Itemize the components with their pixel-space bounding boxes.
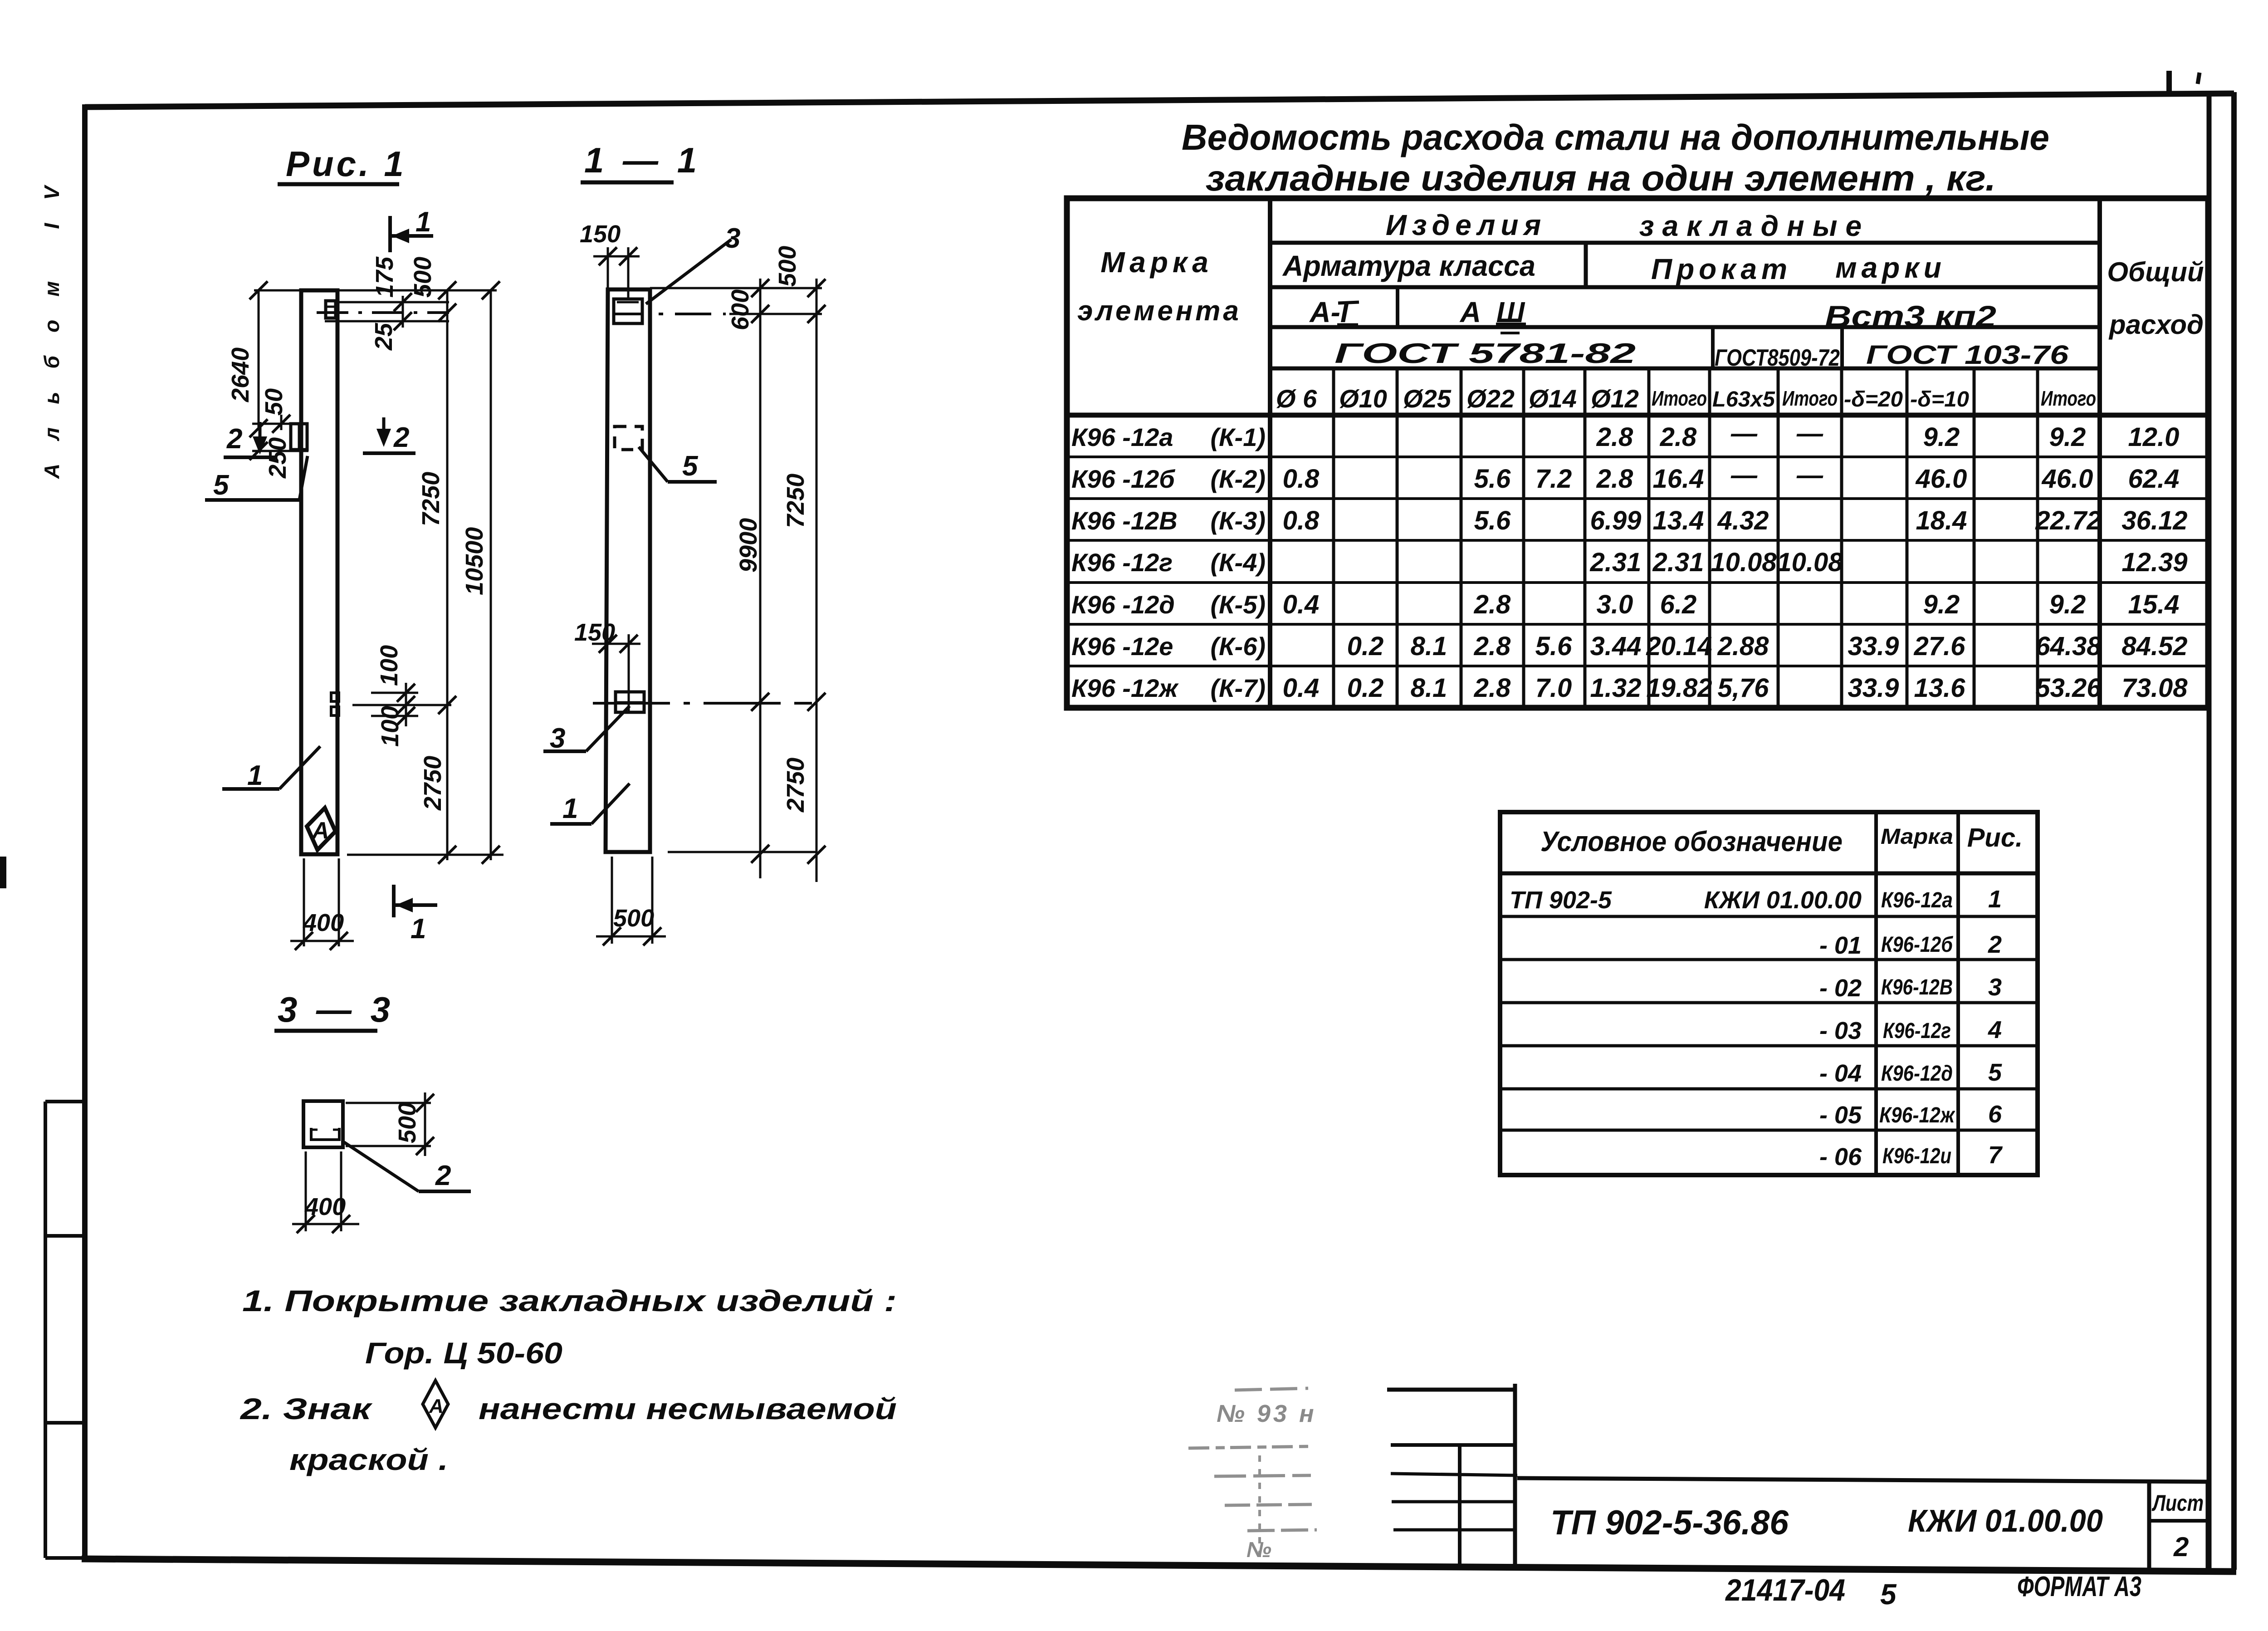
svg-text:Ø10: Ø10 <box>1339 384 1387 413</box>
svg-text:36.12: 36.12 <box>2121 506 2187 535</box>
svg-text:- 06: - 06 <box>1819 1143 1862 1171</box>
svg-text:К96 -12е: К96 -12е <box>1071 632 1173 661</box>
svg-text:ГОСТ 5781-82: ГОСТ 5781-82 <box>1334 338 1636 369</box>
svg-text:L63x5: L63x5 <box>1712 387 1775 411</box>
svg-text:—: — <box>1730 419 1758 448</box>
header: Общий расход <box>2107 257 2204 340</box>
svg-text:- 02: - 02 <box>1819 975 1862 1002</box>
svg-text:2750: 2750 <box>782 758 809 813</box>
svg-text:К96-12а: К96-12а <box>1881 888 1953 912</box>
svg-text:7.0: 7.0 <box>1535 673 1572 703</box>
1-1 column outline <box>606 289 650 852</box>
svg-text:1: 1 <box>411 913 426 945</box>
svg-text:27.6: 27.6 <box>1914 632 1966 661</box>
svg-text:33.9: 33.9 <box>1848 632 1899 661</box>
svg-text:9.2: 9.2 <box>1923 590 1960 619</box>
title block left stamp grid <box>1387 1384 1517 1569</box>
svg-text:0.8: 0.8 <box>1283 464 1320 494</box>
svg-text:К96 -12б: К96 -12б <box>1071 465 1175 493</box>
svg-text:64.38: 64.38 <box>2035 632 2102 661</box>
left edge scan artifact <box>0 857 6 888</box>
Рис.1 lower right plate (item 3) <box>331 693 339 715</box>
svg-text:50: 50 <box>260 388 288 416</box>
title block text ТП 902-5-36.86 <box>1550 1504 1789 1542</box>
svg-text:К96-12б: К96-12б <box>1881 933 1953 957</box>
svg-text:марки: марки <box>1835 251 1946 284</box>
label 25 <box>370 323 397 351</box>
svg-text:15.4: 15.4 <box>2128 590 2180 619</box>
svg-text:5.6: 5.6 <box>1535 632 1572 661</box>
svg-text:8.1: 8.1 <box>1411 673 1447 703</box>
svg-text:0.2: 0.2 <box>1347 673 1384 703</box>
Рис.1 top embedded plate (item 5) <box>326 301 336 318</box>
header: Марка элемента <box>1077 246 1242 327</box>
svg-text:18.4: 18.4 <box>1916 506 1967 535</box>
leader item 1 <box>222 746 320 791</box>
svg-text:К96 -12д: К96 -12д <box>1071 590 1175 619</box>
data row К96-12ж (К-7) <box>1071 673 2188 703</box>
Рис.1 top centerline <box>317 311 449 314</box>
data row К96-12д (К-5) <box>1071 590 2179 619</box>
svg-text:62.4: 62.4 <box>2128 464 2180 494</box>
svg-text:Итого: Итого <box>2041 387 2096 410</box>
svg-text:7: 7 <box>1988 1141 2003 1169</box>
dim line 600/9900 <box>727 279 769 878</box>
note 2 line 2 <box>289 1443 448 1476</box>
svg-text:Ø22: Ø22 <box>1466 384 1515 413</box>
svg-text:нанести несмываемой: нанести несмываемой <box>479 1392 897 1425</box>
svg-text:7250: 7250 <box>417 472 445 526</box>
header: ГОСТ 103-76 <box>1866 340 2069 370</box>
svg-text:2.8: 2.8 <box>1596 422 1633 452</box>
dim 150 top <box>580 220 640 299</box>
svg-text:К96-12В: К96-12В <box>1881 975 1953 999</box>
designation row 1 <box>1510 886 2002 914</box>
dim 400 bottom <box>290 858 354 950</box>
svg-text:9900: 9900 <box>735 518 762 573</box>
dim 150 lower <box>574 619 640 692</box>
Лист box <box>2152 1490 2204 1562</box>
svg-text:—: — <box>1796 419 1823 448</box>
svg-text:А: А <box>1459 296 1481 328</box>
svg-text:К96-12д: К96-12д <box>1881 1062 1953 1086</box>
svg-text:2: 2 <box>435 1160 451 1191</box>
svg-text:2.8: 2.8 <box>1596 464 1633 494</box>
svg-text:Вст3 кп2: Вст3 кп2 <box>1825 299 1996 333</box>
svg-text:600: 600 <box>727 289 754 330</box>
1-1 lower centerline <box>593 702 812 705</box>
section marker 2 left <box>224 422 277 457</box>
svg-text:22.72: 22.72 <box>2035 506 2101 535</box>
note 2 line 1 <box>239 1392 897 1425</box>
Рис.1 column outline <box>301 290 337 854</box>
steel consumption list title <box>1182 117 2049 198</box>
svg-text:21417-04: 21417-04 <box>1725 1573 1845 1607</box>
designation row 3 <box>1819 974 2002 1002</box>
svg-text:2750: 2750 <box>419 756 446 811</box>
svg-text:7.2: 7.2 <box>1535 464 1572 494</box>
svg-text:2.8: 2.8 <box>1474 673 1511 703</box>
svg-text:13.4: 13.4 <box>1653 506 1704 535</box>
header: diameter row <box>1276 384 2096 413</box>
svg-text:А: А <box>311 818 329 844</box>
header: А-I <box>1309 296 1359 328</box>
1-1 title <box>581 140 701 182</box>
svg-text:19.82: 19.82 <box>1646 673 1712 703</box>
svg-text:25: 25 <box>370 323 397 351</box>
designation row 5 <box>1819 1059 2002 1087</box>
svg-text:6: 6 <box>1988 1101 2002 1128</box>
dim 500 right <box>346 1092 434 1156</box>
svg-text:12.39: 12.39 <box>2121 548 2187 577</box>
svg-text:Ø12: Ø12 <box>1591 384 1639 413</box>
note 1 line 2 <box>365 1336 562 1370</box>
svg-text:Изделия: Изделия <box>1386 209 1546 241</box>
svg-text:46.0: 46.0 <box>1916 464 1967 494</box>
Рис.1 left embedded plate (item 5) <box>291 424 307 450</box>
svg-text:500: 500 <box>613 905 654 932</box>
designation row 2 <box>1819 931 2002 959</box>
Рис.1 dim 175/25 extension lines <box>325 293 456 330</box>
svg-text:3.0: 3.0 <box>1597 590 1633 619</box>
label 175 <box>371 256 398 298</box>
svg-text:- 04: - 04 <box>1819 1060 1862 1087</box>
svg-text:0.8: 0.8 <box>1283 506 1320 535</box>
svg-text:закладные изделия на один: закладные изделия на один элемент , кг. <box>1206 158 1996 198</box>
svg-text:6.99: 6.99 <box>1590 506 1642 535</box>
svg-text:53.26: 53.26 <box>2035 673 2102 703</box>
svg-text:46.0: 46.0 <box>2042 464 2093 494</box>
svg-text:Ø14: Ø14 <box>1529 384 1577 413</box>
left margin binder boxes <box>45 1102 85 1558</box>
svg-text:10.08: 10.08 <box>1711 548 1777 577</box>
svg-text:2.8: 2.8 <box>1474 632 1511 661</box>
svg-text:КЖИ 01.00.00: КЖИ 01.00.00 <box>1704 887 1862 914</box>
svg-text:0.2: 0.2 <box>1347 632 1384 661</box>
svg-text:К96-12г: К96-12г <box>1883 1019 1951 1043</box>
svg-text:0.4: 0.4 <box>1283 590 1320 619</box>
svg-text:3 — 3: 3 — 3 <box>278 989 395 1029</box>
title block text КЖИ 01.00.00 <box>1908 1503 2103 1538</box>
leader item 3 top <box>646 223 740 304</box>
3-3 plate square <box>303 1101 343 1147</box>
quality diamond А <box>303 805 339 852</box>
svg-text:9.2: 9.2 <box>2049 590 2086 619</box>
designation row 6 <box>1819 1101 2002 1129</box>
dim 50 / 250 near plate <box>249 388 308 479</box>
svg-text:400: 400 <box>303 909 344 936</box>
svg-text:расход: расход <box>2108 309 2204 340</box>
leader item 5 <box>639 447 717 482</box>
svg-text:1: 1 <box>1988 886 2002 913</box>
svg-text:Арматура класса: Арматура класса <box>1282 250 1535 282</box>
bottom extension line <box>347 854 503 856</box>
format note ФОРМАТ А3 <box>2017 1571 2141 1602</box>
svg-text:5.6: 5.6 <box>1474 464 1511 494</box>
svg-text:73.08: 73.08 <box>2121 673 2188 703</box>
svg-text:5: 5 <box>213 470 230 501</box>
header: ГОСТ 5781-82 <box>1334 338 1636 369</box>
section marker 1 top <box>390 206 433 252</box>
header: Изделия закладные <box>1386 209 1870 242</box>
svg-text:-δ=20: -δ=20 <box>1844 387 1903 411</box>
svg-text:(К-3): (К-3) <box>1210 506 1266 535</box>
svg-text:Общий: Общий <box>2107 257 2204 287</box>
svg-text:ФОРМАТ А3: ФОРМАТ А3 <box>2017 1571 2141 1602</box>
data row К96-12а (К-1) <box>1071 419 2179 452</box>
svg-text:краской .: краской . <box>289 1443 448 1476</box>
data row К96-12г (К-4) <box>1071 548 2188 577</box>
handwritten doc number 21417-04 <box>1725 1573 1897 1611</box>
big table grid <box>1067 198 2208 708</box>
header: Вст3 кп2 <box>1825 299 1996 333</box>
dim line 500/7250/2750 <box>774 246 826 882</box>
svg-text:Условное обозначение: Условное обозначение <box>1540 826 1843 857</box>
svg-text:Марка: Марка <box>1881 825 1953 849</box>
svg-text:№ 93 н: № 93 н <box>1217 1400 1317 1427</box>
svg-text:13.6: 13.6 <box>1914 673 1966 703</box>
svg-text:Итого: Итого <box>1782 387 1838 410</box>
svg-text:К96 -12ж: К96 -12ж <box>1071 674 1179 702</box>
svg-text:2.31: 2.31 <box>1652 548 1704 577</box>
svg-text:3: 3 <box>725 223 740 254</box>
3-3 title <box>274 989 395 1031</box>
3-3 channel profile <box>311 1128 339 1140</box>
svg-text:2.31: 2.31 <box>1590 548 1642 577</box>
svg-text:5: 5 <box>682 451 699 482</box>
svg-text:Рис.: Рис. <box>1967 823 2023 852</box>
svg-text:5,76: 5,76 <box>1718 673 1769 703</box>
svg-text:А: А <box>429 1395 444 1417</box>
section marker 2 middle <box>363 417 415 453</box>
svg-text:К96-12и: К96-12и <box>1882 1144 1951 1168</box>
1-1 dashed plate (item 5) <box>615 426 642 450</box>
note 1 line 1 <box>242 1284 897 1318</box>
dim line 7250/2750 <box>417 281 456 864</box>
data row К96-12В (К-3) <box>1071 506 2188 535</box>
svg-text:2.8: 2.8 <box>1660 422 1697 452</box>
svg-text:100: 100 <box>376 645 403 686</box>
svg-text:3: 3 <box>550 723 565 754</box>
svg-text:Ведомость расхода стали на: Ведомость расхода стали на дополнительны… <box>1182 117 2049 157</box>
svg-text:2: 2 <box>226 423 242 455</box>
svg-text:9.2: 9.2 <box>1923 422 1960 452</box>
svg-text:1: 1 <box>562 793 578 824</box>
svg-text:Прокат: Прокат <box>1651 253 1792 285</box>
faint inventory stamp <box>1188 1388 1317 1562</box>
svg-text:8.1: 8.1 <box>1411 632 1447 661</box>
svg-text:Итого: Итого <box>1652 387 1707 410</box>
svg-text:2.88: 2.88 <box>1717 632 1769 661</box>
leader item 1 <box>550 784 630 824</box>
svg-text:5: 5 <box>1988 1059 2002 1086</box>
svg-text:2.8: 2.8 <box>1474 590 1511 619</box>
top edge fold marks <box>2169 23 2268 95</box>
svg-text:(К-5): (К-5) <box>1210 590 1266 619</box>
svg-text:К96 -12В: К96 -12В <box>1071 506 1178 535</box>
svg-text:ГОСТ 103-76: ГОСТ 103-76 <box>1866 340 2069 370</box>
svg-text:5.6: 5.6 <box>1474 506 1511 535</box>
svg-text:Рис. 1: Рис. 1 <box>286 144 406 184</box>
svg-text:элемента: элемента <box>1077 295 1242 327</box>
svg-text:84.52: 84.52 <box>2121 632 2187 661</box>
svg-text:0.4: 0.4 <box>1283 673 1320 703</box>
title block bar <box>1517 1478 2208 1569</box>
svg-text:ТП 902-5-36.86: ТП 902-5-36.86 <box>1550 1504 1789 1542</box>
svg-text:500: 500 <box>774 246 801 287</box>
svg-text:Марка: Марка <box>1100 246 1213 279</box>
svg-text:33.9: 33.9 <box>1848 673 1899 703</box>
svg-text:№: № <box>1246 1538 1271 1562</box>
svg-text:1. Покрытие закладных издел: 1. Покрытие закладных изделий : <box>242 1284 897 1318</box>
svg-text:(К-7): (К-7) <box>1210 674 1266 702</box>
mid plate extension lines <box>352 645 451 747</box>
header: Арматура класса <box>1282 250 1535 282</box>
extension lines right top <box>650 288 822 314</box>
header: А III <box>1459 296 1526 333</box>
svg-text:ТП 902-5: ТП 902-5 <box>1510 887 1612 914</box>
vertical margin text: Альбом IV <box>40 185 64 479</box>
svg-text:16.4: 16.4 <box>1653 464 1704 494</box>
svg-text:4: 4 <box>1988 1016 2002 1043</box>
dim 2640 <box>227 281 303 437</box>
svg-text:2: 2 <box>2173 1532 2189 1562</box>
svg-text:7250: 7250 <box>782 474 809 528</box>
svg-text:150: 150 <box>580 220 621 248</box>
svg-text:К96 -12а: К96 -12а <box>1071 423 1173 451</box>
svg-text:(К-2): (К-2) <box>1210 465 1266 493</box>
svg-text:100: 100 <box>376 706 404 747</box>
leader item 5 <box>205 456 308 501</box>
data row К96-12е (К-6) <box>1071 632 2188 661</box>
svg-text:К96 -12г: К96 -12г <box>1071 548 1173 577</box>
svg-text:4.32: 4.32 <box>1717 506 1769 535</box>
svg-text:Альбом IV: Альбом IV <box>40 185 64 479</box>
svg-text:1 — 1: 1 — 1 <box>584 140 701 180</box>
svg-text:2: 2 <box>1988 931 2002 958</box>
svg-text:- 03: - 03 <box>1819 1017 1862 1044</box>
leader item 3 lower <box>543 706 630 754</box>
designation row 7 <box>1819 1141 2003 1171</box>
svg-text:Ø 6: Ø 6 <box>1276 384 1317 413</box>
svg-text:2. Знак: 2. Знак <box>239 1392 373 1425</box>
svg-text:- 01: - 01 <box>1819 932 1862 959</box>
svg-text:—: — <box>1730 460 1758 490</box>
designation table header <box>1540 823 2023 857</box>
data row К96-12б (К-2) <box>1071 460 2179 494</box>
dim 500 bottom <box>596 857 666 945</box>
header: Прокат марки <box>1651 251 1946 285</box>
svg-text:-δ=10: -δ=10 <box>1910 387 1969 411</box>
svg-text:6.2: 6.2 <box>1660 590 1697 619</box>
svg-text:(К-4): (К-4) <box>1210 548 1266 577</box>
svg-text:- 05: - 05 <box>1819 1102 1862 1129</box>
svg-text:400: 400 <box>304 1193 346 1220</box>
svg-text:5: 5 <box>1880 1578 1897 1611</box>
label 500 top <box>409 257 436 298</box>
svg-text:500: 500 <box>394 1102 421 1143</box>
1-1 top plate (item 3) <box>614 299 642 323</box>
section marker 1 bottom <box>394 885 437 945</box>
svg-text:КЖИ 01.00.00: КЖИ 01.00.00 <box>1908 1503 2103 1538</box>
dim line 10500 <box>461 281 500 864</box>
svg-text:20.14: 20.14 <box>1646 632 1712 661</box>
svg-text:1.32: 1.32 <box>1590 673 1642 703</box>
svg-text:2640: 2640 <box>227 348 254 402</box>
dim 400 bottom <box>292 1151 359 1233</box>
bottom extension line <box>668 851 816 853</box>
1-1 top centerline <box>659 313 726 315</box>
designation row 4 <box>1819 1016 2002 1044</box>
svg-text:К96-12ж: К96-12ж <box>1879 1103 1955 1127</box>
svg-text:10.08: 10.08 <box>1777 548 1843 577</box>
header: ГОСТ8509-72 <box>1715 345 1840 371</box>
svg-text:ГОСТ8509-72: ГОСТ8509-72 <box>1715 345 1840 371</box>
svg-text:1: 1 <box>415 206 431 238</box>
leader item 2 <box>343 1141 471 1191</box>
svg-text:2: 2 <box>393 422 409 453</box>
svg-text:Ø25: Ø25 <box>1403 384 1452 413</box>
svg-text:3: 3 <box>1988 974 2002 1001</box>
note 2 diamond sign <box>423 1381 448 1428</box>
designation table grid <box>1500 812 2038 1175</box>
Рис.1 title <box>278 144 406 184</box>
svg-text:—: — <box>1796 460 1823 490</box>
svg-text:закладные: закладные <box>1639 210 1870 242</box>
svg-text:3.44: 3.44 <box>1590 632 1642 661</box>
svg-text:9.2: 9.2 <box>2049 422 2086 452</box>
svg-text:1: 1 <box>247 760 263 791</box>
svg-text:Лист: Лист <box>2152 1490 2204 1516</box>
svg-text:(К-1): (К-1) <box>1210 423 1266 451</box>
svg-text:(К-6): (К-6) <box>1210 632 1266 661</box>
svg-text:12.0: 12.0 <box>2128 422 2180 452</box>
svg-text:Гор. Ц 50-60: Гор. Ц 50-60 <box>365 1336 562 1370</box>
svg-text:10500: 10500 <box>461 527 488 595</box>
1-1 lower plate (item 3) <box>616 692 644 712</box>
top extension line <box>254 289 497 292</box>
